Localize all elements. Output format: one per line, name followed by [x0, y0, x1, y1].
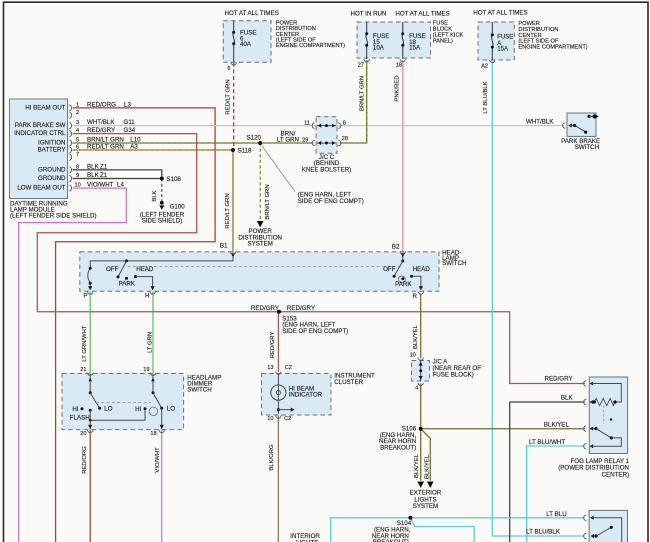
- svg-text:VIO/WHT: VIO/WHT: [155, 447, 161, 473]
- svg-text:PARK BRAKE SW: PARK BRAKE SW: [15, 122, 66, 129]
- svg-text:PANEL): PANEL): [433, 39, 453, 45]
- svg-text:CLUSTER: CLUSTER: [334, 379, 363, 386]
- svg-text:RED/LT GRN: RED/LT GRN: [87, 144, 124, 151]
- svg-text:BATTERY: BATTERY: [38, 147, 66, 154]
- svg-text:HI BEAM OUT: HI BEAM OUT: [25, 104, 65, 111]
- svg-text:LO: LO: [104, 405, 112, 412]
- svg-text:A2: A2: [481, 63, 488, 69]
- svg-text:10: 10: [410, 352, 416, 358]
- svg-text:15A: 15A: [497, 46, 508, 52]
- svg-text:HOT IN RUN: HOT IN RUN: [351, 11, 387, 18]
- svg-text:4: 4: [415, 386, 418, 392]
- svg-text:HI: HI: [135, 406, 141, 413]
- svg-text:29: 29: [302, 137, 308, 143]
- svg-text:4: 4: [76, 128, 79, 134]
- svg-text:11: 11: [304, 120, 310, 126]
- svg-text:BLK/YEL: BLK/YEL: [544, 422, 570, 429]
- svg-text:A3: A3: [130, 144, 138, 151]
- svg-text:ENGINE COMPARTMENT): ENGINE COMPARTMENT): [276, 43, 345, 49]
- svg-text:BLK/YEL: BLK/YEL: [414, 453, 420, 478]
- svg-text:RED/GRY: RED/GRY: [251, 305, 279, 312]
- svg-text:P: P: [83, 293, 87, 300]
- svg-text:18: 18: [150, 431, 156, 437]
- svg-text:LT GRN/WHT: LT GRN/WHT: [82, 325, 88, 362]
- svg-text:LT GRN: LT GRN: [277, 136, 299, 143]
- svg-text:OFF: OFF: [383, 266, 396, 273]
- svg-text:S118: S118: [238, 148, 253, 155]
- svg-text:L10: L10: [130, 137, 141, 144]
- svg-text:C2: C2: [285, 365, 292, 371]
- svg-text:HEAD: HEAD: [136, 266, 154, 273]
- svg-text:WHT/BLK: WHT/BLK: [87, 119, 115, 126]
- svg-text:L4: L4: [117, 182, 124, 189]
- svg-text:SYSTEM: SYSTEM: [413, 503, 438, 510]
- svg-text:CENTER): CENTER): [602, 471, 630, 478]
- svg-text:VIO/WHT: VIO/WHT: [87, 182, 114, 189]
- svg-text:3: 3: [76, 120, 79, 126]
- svg-text:SWITCH: SWITCH: [187, 387, 211, 394]
- svg-text:OFF: OFF: [106, 266, 119, 273]
- svg-text:G34: G34: [124, 127, 136, 134]
- svg-text:SIDE OF ENG COMPT): SIDE OF ENG COMPT): [282, 328, 348, 335]
- svg-text:13: 13: [267, 365, 273, 371]
- svg-text:BLK: BLK: [152, 190, 158, 201]
- svg-text:B2: B2: [392, 243, 400, 250]
- svg-text:40A: 40A: [240, 41, 252, 48]
- svg-text:GROUND: GROUND: [38, 166, 66, 173]
- svg-text:Z1: Z1: [100, 172, 108, 179]
- svg-text:L3: L3: [124, 101, 131, 108]
- svg-text:Z1: Z1: [100, 163, 108, 170]
- svg-text:HEAD: HEAD: [413, 266, 431, 273]
- svg-text:RED/ORG: RED/ORG: [82, 446, 88, 474]
- svg-text:PARK: PARK: [395, 281, 412, 288]
- svg-text:C2: C2: [284, 416, 291, 422]
- svg-text:1: 1: [76, 102, 79, 108]
- svg-text:RED/GRY: RED/GRY: [270, 332, 276, 359]
- svg-text:GROUND: GROUND: [38, 175, 66, 182]
- svg-text:21: 21: [80, 367, 86, 373]
- svg-text:RED/LT GRN: RED/LT GRN: [225, 79, 231, 114]
- svg-text:9: 9: [76, 173, 79, 179]
- svg-text:10A: 10A: [373, 45, 385, 52]
- svg-text:20: 20: [80, 431, 86, 437]
- svg-text:G11: G11: [124, 119, 136, 126]
- svg-text:6: 6: [76, 145, 79, 151]
- svg-text:BLK/YEL: BLK/YEL: [413, 324, 419, 349]
- svg-text:8: 8: [343, 120, 346, 126]
- svg-text:15A: 15A: [409, 45, 421, 52]
- svg-text:HI: HI: [72, 406, 78, 413]
- svg-text:PARK: PARK: [119, 281, 136, 288]
- svg-text:27: 27: [358, 63, 364, 69]
- svg-text:H: H: [145, 293, 149, 300]
- svg-text:SIDE OF ENG COMPT): SIDE OF ENG COMPT): [298, 198, 364, 205]
- svg-text:R: R: [413, 293, 418, 300]
- svg-text:S120: S120: [247, 135, 262, 142]
- svg-text:18: 18: [396, 63, 402, 69]
- svg-text:6: 6: [227, 66, 230, 72]
- svg-text:7: 7: [76, 152, 79, 158]
- svg-text:G100: G100: [170, 204, 186, 211]
- svg-text:KNEE BOLSTER): KNEE BOLSTER): [302, 167, 352, 174]
- svg-text:HOT AT ALL TIMES: HOT AT ALL TIMES: [473, 9, 527, 16]
- svg-text:HOT AT ALL TIMES: HOT AT ALL TIMES: [395, 11, 449, 18]
- svg-text:WHT/BLK: WHT/BLK: [526, 119, 554, 126]
- svg-text:SWITCH: SWITCH: [442, 260, 466, 267]
- svg-text:ENGINE COMPARTMENT): ENGINE COMPARTMENT): [518, 44, 587, 50]
- svg-text:8: 8: [76, 164, 79, 170]
- svg-text:BREAKOUT): BREAKOUT): [380, 445, 416, 452]
- svg-text:BLK/ORG: BLK/ORG: [269, 444, 275, 471]
- svg-text:HOT AT ALL TIMES: HOT AT ALL TIMES: [225, 10, 279, 17]
- svg-text:LT BLU/BLK: LT BLU/BLK: [526, 529, 561, 536]
- svg-text:10: 10: [267, 416, 273, 422]
- svg-text:BLK/YEL: BLK/YEL: [424, 454, 430, 479]
- svg-text:SIDE SHIELD): SIDE SHIELD): [142, 218, 183, 225]
- svg-text:10: 10: [75, 183, 81, 189]
- svg-text:FUSE: FUSE: [497, 35, 513, 41]
- svg-text:PNK/RED: PNK/RED: [395, 75, 401, 101]
- svg-text:FLASH: FLASH: [70, 415, 90, 422]
- svg-text:INDICATOR: INDICATOR: [289, 392, 323, 399]
- svg-text:BRN/LT GRN: BRN/LT GRN: [360, 76, 366, 111]
- svg-text:IGNITION: IGNITION: [38, 140, 66, 147]
- svg-text:5: 5: [76, 138, 79, 144]
- svg-text:2: 2: [76, 110, 79, 116]
- svg-text:LO: LO: [167, 405, 175, 412]
- svg-text:BRN/LT GRN: BRN/LT GRN: [265, 184, 271, 219]
- svg-text:S108: S108: [166, 176, 181, 183]
- svg-text:LT BLU: LT BLU: [546, 511, 566, 518]
- svg-text:LT BLU/WHT: LT BLU/WHT: [529, 439, 565, 446]
- svg-text:LT GRN: LT GRN: [147, 332, 153, 353]
- svg-text:(LEFT FENDER SIDE SHIELD): (LEFT FENDER SIDE SHIELD): [10, 212, 97, 219]
- svg-text:SYSTEM: SYSTEM: [247, 241, 272, 248]
- svg-text:B1: B1: [220, 243, 228, 250]
- svg-text:FUSE BLOCK): FUSE BLOCK): [433, 371, 474, 378]
- svg-text:RED/GRY: RED/GRY: [545, 376, 573, 383]
- svg-text:19: 19: [143, 367, 149, 373]
- svg-text:BLK: BLK: [87, 172, 100, 179]
- svg-text:LT BLU/BLK: LT BLU/BLK: [483, 81, 489, 113]
- svg-text:BRN/LT GRN: BRN/LT GRN: [87, 137, 124, 144]
- svg-text:RED/LT GRN: RED/LT GRN: [225, 193, 231, 228]
- svg-text:INDICATOR CTRL: INDICATOR CTRL: [14, 130, 66, 137]
- svg-text:RED/ORG: RED/ORG: [87, 101, 116, 108]
- svg-text:28: 28: [342, 136, 348, 142]
- svg-text:RED/GRY: RED/GRY: [287, 305, 315, 312]
- svg-text:SWITCH: SWITCH: [575, 144, 599, 151]
- svg-text:BLK: BLK: [561, 394, 574, 401]
- svg-text:RED/GRY: RED/GRY: [87, 127, 115, 134]
- svg-text:BLK: BLK: [87, 163, 100, 170]
- svg-text:LOW BEAM OUT: LOW BEAM OUT: [17, 185, 65, 192]
